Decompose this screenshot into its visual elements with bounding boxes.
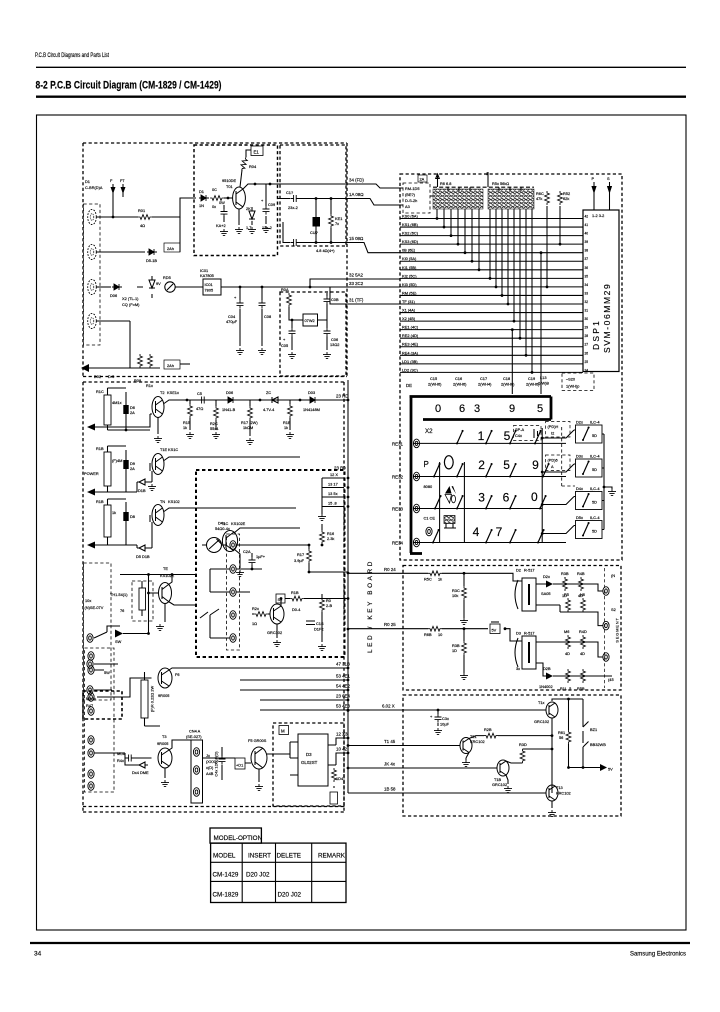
table frame (211, 843, 346, 902)
svg-text:KS102: KS102 (168, 499, 180, 504)
pin stubs (210, 569, 230, 638)
wire (137, 457, 300, 492)
ground (321, 618, 323, 642)
svg-text:R1B: R1B (291, 590, 299, 595)
tuner out wires (322, 478, 344, 507)
wire 23 (260, 699, 348, 701)
svg-text:R4B: R4B (577, 571, 585, 576)
svg-text:2(WH6): 2(WH6) (526, 382, 540, 387)
svg-text:1B 58: 1B 58 (384, 787, 396, 792)
svg-text:LD2 (3C): LD2 (3C) (402, 367, 418, 372)
svg-text:23x-2: 23x-2 (288, 205, 298, 210)
svg-text:S: S (607, 176, 610, 181)
svg-text:A3: A3 (405, 204, 410, 209)
node (291, 319, 294, 322)
svg-text:C3x: C3x (442, 716, 449, 721)
resistor R5B (577, 669, 585, 691)
svg-text:SEGMENT: SEGMENT (615, 617, 620, 642)
relay D51 (541, 515, 604, 539)
transistor T6 (158, 668, 172, 688)
transistor T5 (251, 747, 267, 769)
svg-text:+: + (430, 714, 433, 719)
wire R025 (348, 629, 522, 641)
resistor R15 (183, 400, 192, 430)
svg-text:12 X: 12 X (330, 472, 338, 477)
svg-text:56: 56 (559, 735, 563, 740)
node (308, 544, 311, 547)
key SW1 (456, 430, 464, 445)
diode D06a (226, 397, 236, 403)
wire (95, 499, 296, 545)
svg-text:R-517: R-517 (524, 631, 535, 636)
svg-text:ZC: ZC (266, 390, 271, 395)
svg-text:4D: 4D (580, 651, 585, 656)
svg-text:1-2 3-2: 1-2 3-2 (592, 213, 604, 218)
zener ZD06 (137, 276, 161, 298)
wire 602X (348, 709, 546, 711)
svg-text:2(WH4): 2(WH4) (478, 382, 492, 387)
switch pin (87, 634, 93, 643)
svg-text:40: 40 (585, 232, 589, 236)
svg-text:D-5: D-5 (108, 374, 114, 379)
pin b1 (88, 652, 94, 661)
svg-text:CM-1429: CM-1429 (213, 872, 239, 879)
svg-text:10x: 10x (85, 598, 91, 603)
svg-text:30: 30 (585, 317, 589, 321)
svg-text:RE32: RE32 (392, 475, 404, 480)
wire (240, 170, 242, 187)
cascade junction nodes (436, 217, 534, 374)
svg-text:GL02ST: GL02ST (301, 760, 318, 765)
wire (400, 188, 433, 205)
svg-text:R17: R17 (297, 552, 304, 557)
wire (569, 767, 601, 769)
micom wires (400, 219, 583, 373)
svg-text:DELETE: DELETE (277, 853, 302, 860)
svg-text:RM (5E): RM (5E) (402, 290, 417, 295)
key column headers (428, 376, 540, 387)
key column wire (541, 428, 543, 543)
pin n1 (193, 748, 199, 757)
key row wire RE32 (413, 476, 566, 478)
svg-text:13Ω2: 13Ω2 (330, 342, 339, 347)
cap C5a (196, 391, 207, 411)
svg-text:KI3 (5D): KI3 (5D) (402, 282, 417, 287)
resistor R61 (558, 698, 571, 769)
resistor R01 (138, 215, 152, 220)
svg-text:23 RD: 23 RD (336, 394, 348, 399)
svg-text:1k: 1k (284, 425, 288, 430)
key SW3 (509, 430, 517, 445)
pin L3 (603, 653, 609, 662)
svg-text:R1B: R1B (96, 499, 104, 504)
fuse F2 (120, 178, 126, 197)
svg-text:0x: 0x (212, 204, 216, 209)
svg-text:D2x: D2x (576, 420, 583, 425)
cap C09 (261, 184, 275, 230)
svg-text:1A 08Ω: 1A 08Ω (349, 192, 364, 197)
title underline (36, 95, 686, 97)
svg-text:13x-2: 13x-2 (262, 225, 272, 230)
svg-text:R04: R04 (249, 164, 257, 169)
cap C2A (243, 549, 266, 569)
svg-text:9: 9 (532, 458, 539, 472)
svg-text:SP-A: SP-A (515, 427, 524, 432)
collector wire (169, 602, 197, 606)
svg-text:6.02 X: 6.02 X (382, 704, 395, 709)
resistor R1Bx (285, 590, 348, 612)
remocon module RM1 (403, 183, 430, 213)
resistor R6B (428, 626, 442, 631)
svg-text:D2B: D2B (543, 666, 551, 671)
svg-text:9R005: 9R005 (158, 693, 169, 698)
wire 1A 08 (346, 199, 400, 206)
wire 31 (TF) (330, 287, 400, 304)
diode D03 (308, 397, 318, 403)
svg-text:R5C: R5C (424, 577, 432, 582)
svg-text:R6 6.8: R6 6.8 (440, 181, 451, 186)
svg-text:3: 3 (474, 403, 480, 415)
svg-text:8080: 8080 (424, 484, 433, 489)
resistor R17 (294, 545, 311, 572)
power board dashed box (83, 143, 347, 376)
ground (286, 432, 294, 439)
key flex connector (hatched) (433, 189, 483, 209)
cap C06 (324, 328, 340, 350)
pin 1 (88, 209, 97, 224)
node (437, 709, 440, 712)
svg-text:KRC102: KRC102 (470, 739, 485, 744)
svg-text:R47: R47 (86, 703, 93, 708)
svg-text:15 .8: 15 .8 (328, 501, 337, 506)
function board dashed box (83, 382, 344, 812)
wire 23RD joint (344, 399, 348, 401)
resistor W4 (332, 768, 344, 788)
node (315, 241, 318, 244)
resistor R4B (577, 571, 585, 598)
wire (466, 736, 552, 758)
svg-text:MODEL: MODEL (213, 853, 236, 860)
regulator IC01 (203, 279, 221, 295)
pin c4 (230, 611, 236, 620)
pullup wire (559, 206, 561, 244)
ground (220, 229, 228, 236)
key SW5 (433, 463, 441, 478)
volume pot VR1 (202, 521, 230, 553)
svg-text:ILC-4: ILC-4 (590, 486, 600, 491)
svg-text:R1C: R1C (96, 389, 104, 394)
wire (179, 217, 181, 252)
svg-text:0: 0 (531, 490, 538, 504)
node (330, 197, 333, 200)
emitter wire (238, 209, 240, 225)
resistor R4x (252, 606, 270, 626)
ground (236, 348, 244, 355)
svg-text:D8: D8 (130, 514, 135, 519)
wire (94, 670, 160, 726)
svg-text:D20 J02: D20 J02 (278, 892, 302, 899)
power switch box (84, 563, 112, 700)
connector pin 3 (88, 279, 97, 294)
svg-text:38: 38 (585, 249, 589, 253)
svg-text:D1: D1 (199, 189, 204, 194)
wire 53b (260, 709, 348, 711)
boxed S2 (276, 594, 285, 603)
node (269, 183, 272, 186)
transistor T1C (222, 531, 237, 552)
svg-text:CQ (F=M): CQ (F=M) (122, 302, 140, 307)
label 2A (418, 175, 427, 182)
node (330, 241, 333, 244)
svg-text:S2: S2 (611, 607, 616, 612)
svg-text:TH1.54(1): TH1.54(1) (110, 592, 128, 597)
cap base (117, 751, 134, 763)
cap C05 (281, 328, 296, 350)
svg-text:23 R0: 23 R0 (334, 466, 346, 471)
svg-text:R0A: R0A (281, 287, 289, 292)
svg-text:C2A: C2A (243, 549, 251, 554)
svg-text:KI1 (5B): KI1 (5B) (402, 265, 417, 270)
resistor R5C (428, 571, 442, 576)
svg-text:D3: D3 (306, 752, 312, 757)
svg-text:R01: R01 (138, 208, 145, 213)
emitter ground (164, 604, 166, 623)
input resistor R1Bb (96, 499, 116, 545)
svg-text:36: 36 (585, 266, 589, 270)
svg-text:24: 24 (585, 368, 589, 372)
diode D2B (539, 666, 553, 689)
collector rail (552, 699, 583, 793)
pin L2 (603, 621, 609, 630)
out wire (536, 642, 603, 657)
cap C06b2 (123, 450, 135, 492)
wire (175, 286, 203, 288)
svg-text:X2: X2 (425, 428, 433, 435)
svg-text:(N: (N (611, 573, 615, 578)
key row wire RE33 (413, 508, 542, 510)
svg-text:CN4 A: CN4 A (189, 729, 201, 734)
pin n2 (193, 766, 199, 775)
svg-text:2A: 2A (130, 410, 135, 415)
svg-text:P.C.B Circuit Diagrams and Par: P.C.B Circuit Diagrams and Parts List (35, 52, 109, 59)
relay common wire (604, 434, 612, 530)
svg-text:34: 34 (34, 951, 42, 958)
diode D2x (541, 574, 553, 596)
svg-text:R1x: R1x (146, 383, 153, 388)
svg-text:D02: D02 (94, 374, 101, 379)
wire T145 (348, 745, 460, 747)
svg-text:R-517: R-517 (524, 568, 535, 573)
pin 4 (88, 313, 97, 328)
svg-text:T3: T3 (162, 734, 167, 739)
svg-text:5V: 5V (492, 628, 497, 633)
svg-text:C08: C08 (264, 314, 271, 319)
resistor R2B (484, 733, 498, 738)
svg-text:2(WH6): 2(WH6) (428, 382, 442, 387)
switch sym (200, 609, 219, 638)
connector CN4 (186, 729, 203, 804)
option box PD2 (546, 455, 571, 471)
svg-text:C4x 1D0µF(D): C4x 1D0µF(D) (214, 751, 219, 777)
svg-text:4D: 4D (565, 651, 570, 656)
pin RE31 (413, 439, 419, 448)
svg-text:D5 D1B: D5 D1B (136, 554, 150, 559)
svg-text:R4x: R4x (117, 758, 124, 763)
svg-text:31: 31 (585, 309, 589, 313)
svg-text:MA3x: MA3x (86, 696, 96, 701)
diode arrow D5b (115, 630, 123, 638)
svg-text:1N41-B: 1N41-B (222, 407, 236, 412)
transistor T1x (546, 702, 558, 718)
svg-text:32 5A2: 32 5A2 (349, 273, 363, 278)
ground (186, 432, 194, 439)
wire (94, 740, 191, 778)
svg-text:X1 (4A): X1 (4A) (402, 308, 416, 313)
svg-text:10k: 10k (452, 593, 458, 598)
ground (434, 728, 442, 735)
svg-text:KRC102: KRC102 (556, 791, 571, 796)
svg-text:F: F (110, 178, 113, 183)
svg-text:26: 26 (585, 351, 589, 355)
svg-text:13 17: 13 17 (328, 482, 338, 487)
wire (95, 388, 150, 430)
svg-text:35: 35 (585, 274, 589, 278)
pin c1 (230, 541, 236, 550)
key SW13 (509, 495, 517, 510)
svg-text:C16: C16 (455, 376, 462, 381)
svg-text:1N: 1N (199, 203, 204, 208)
node (254, 183, 257, 186)
wire base (224, 197, 233, 199)
resistor R0A (287, 293, 292, 307)
ground (255, 784, 263, 791)
ground (608, 489, 616, 496)
resistor R09 (138, 354, 143, 368)
svg-text:R5B: R5B (577, 686, 585, 691)
svg-text:13 5x: 13 5x (328, 491, 338, 496)
pin stubs (290, 742, 336, 775)
svg-text:10µF: 10µF (440, 722, 450, 727)
pin b7 (88, 770, 94, 779)
pin b8 (88, 782, 94, 791)
key row wire RE31 (413, 442, 566, 444)
svg-text:RE4 (3A): RE4 (3A) (402, 350, 419, 355)
opto D2 (515, 568, 536, 612)
svg-text:–S20: –S20 (566, 377, 576, 382)
audio wire (187, 399, 344, 401)
svg-text:D2x: D2x (543, 574, 550, 579)
wire 53a (240, 679, 348, 681)
key SW18 (537, 529, 545, 544)
diode D07 (94, 664, 118, 675)
switch pin2 (87, 660, 93, 669)
svg-text:8-2 P.C.B Circuit Diagram (CM-: 8-2 P.C.B Circuit Diagram (CM-1829 / CM-… (36, 80, 222, 92)
svg-text:R2B: R2B (484, 727, 492, 732)
svg-text:D20 J02: D20 J02 (246, 872, 270, 879)
svg-text:4.7V-4: 4.7V-4 (263, 407, 275, 412)
boxed label 5V (490, 622, 506, 634)
svg-text:9510DE: 9510DE (222, 178, 236, 183)
node (227, 197, 230, 200)
ground (460, 618, 468, 625)
wire (234, 528, 300, 568)
svg-text:D4x: D4x (576, 486, 583, 491)
node (239, 286, 242, 289)
mute icon (444, 516, 456, 529)
key column wire (439, 462, 441, 543)
wire 47 (169, 668, 348, 670)
wire 54 (240, 689, 348, 691)
svg-text:C18: C18 (503, 376, 510, 381)
bus nodes (347, 399, 350, 770)
regulator sub-box (194, 145, 278, 256)
switch symbol (94, 632, 107, 664)
svg-text:P: P (424, 460, 429, 469)
emitter (157, 418, 159, 435)
resistor R6C (545, 191, 550, 205)
svg-text:54Ω0-4x: 54Ω0-4x (215, 526, 230, 531)
svg-text:SVM-06MM29: SVM-06MM29 (602, 283, 612, 353)
power arrow (600, 764, 607, 771)
svg-text:5D: 5D (592, 500, 597, 505)
svg-text:27: 27 (585, 343, 589, 347)
connector top rail (433, 186, 534, 188)
svg-text:2.3k: 2.3k (327, 536, 334, 541)
pin 2 (88, 244, 97, 259)
svg-text:SA05: SA05 (541, 591, 551, 596)
node (463, 627, 466, 630)
out wire b (536, 605, 603, 626)
svg-text:6: 6 (503, 491, 510, 505)
transistor T3b (158, 748, 172, 768)
svg-text:TF (31): TF (31) (402, 299, 415, 304)
filter cap C12 (290, 239, 299, 246)
svg-text:R6B: R6B (424, 632, 432, 637)
resistor R52 (558, 191, 563, 205)
pin c2 (230, 565, 236, 574)
svg-text:E1: E1 (254, 150, 260, 155)
resistor R3B (561, 571, 569, 598)
svg-text:C09: C09 (268, 202, 275, 207)
svg-text:BB32WB: BB32WB (590, 742, 606, 747)
signal arrow in2 (87, 489, 95, 496)
svg-text:Samsung Electronics: Samsung Electronics (630, 951, 686, 958)
power feed S (607, 176, 612, 210)
svg-text:1k: 1k (438, 577, 442, 582)
key ground bus (thick) (410, 395, 552, 398)
cap C06c (123, 502, 135, 545)
wire (283, 222, 346, 243)
svg-text:KA7805: KA7805 (200, 273, 214, 278)
svg-text:+D1: +D1 (236, 763, 243, 768)
svg-text:RE34: RE34 (392, 541, 404, 546)
filter sub-box (280, 145, 346, 246)
svg-text:47Ω: 47Ω (196, 406, 203, 411)
svg-text:0C: 0C (212, 187, 217, 192)
input resistor R1C (96, 388, 122, 430)
resistor R04 (239, 156, 248, 171)
svg-text:KS102E: KS102E (231, 521, 246, 526)
filter cap C11 (290, 195, 299, 202)
svg-text:2K: 2K (246, 206, 251, 211)
pin S (426, 527, 432, 536)
svg-text:C5: C5 (197, 391, 202, 396)
thermistor TH1 (139, 581, 146, 616)
key SW10 (434, 495, 442, 510)
svg-text:X2 (TL-1): X2 (TL-1) (122, 296, 139, 301)
IC02 (303, 314, 318, 326)
wire (203, 754, 291, 782)
